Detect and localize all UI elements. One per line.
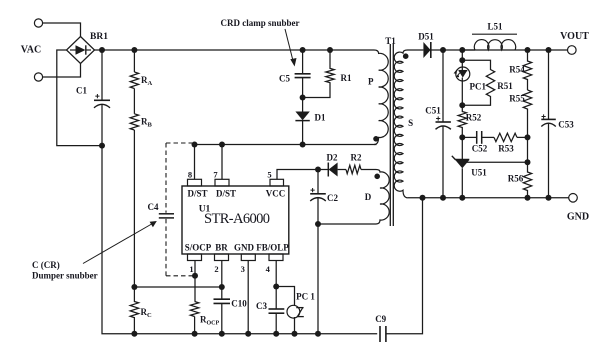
svg-text:D1: D1: [315, 113, 326, 123]
svg-text:GND: GND: [234, 242, 255, 252]
node C51 top: [440, 47, 446, 53]
svg-text:3: 3: [241, 264, 245, 274]
svg-text:R54: R54: [509, 65, 525, 75]
node C52 left junction: [459, 134, 465, 140]
node primary polarity dot: [373, 136, 379, 142]
node R53 right junction: [525, 134, 531, 140]
capacitor C4 (dumper snubber): [159, 214, 174, 218]
node R51 bottom junction: [459, 102, 465, 108]
wire bridge left vertex to left rail down to C1 node: [57, 50, 102, 146]
node C1 top on rail: [99, 47, 105, 53]
node C2 bottom junction: [315, 221, 321, 227]
terminal VAC- (bottom input): [34, 73, 42, 81]
wire ROCP to ground rail: [194, 317, 196, 334]
transformer T1 secondary winding S: [394, 50, 408, 198]
node R1 top on rail: [327, 47, 333, 53]
U1 pin 2 stub: [215, 254, 229, 261]
svg-text:C2: C2: [327, 193, 338, 203]
node pin3 bottom: [245, 331, 251, 337]
svg-text:C10: C10: [231, 299, 247, 309]
wire rail to C5: [302, 50, 304, 74]
node U51 bottom: [459, 195, 465, 201]
svg-text:R55: R55: [509, 94, 525, 104]
wire top positive rail (bridge to transformer primary): [95, 49, 375, 51]
dashed snubber box left edge upper: [165, 143, 167, 213]
node C2 branch bottom: [315, 331, 321, 337]
svg-text:1: 1: [189, 264, 193, 274]
wire RA to RB: [133, 89, 135, 114]
transistor PC1 phototransistor symbol: [296, 308, 304, 317]
U1 pin 4 stub: [269, 254, 283, 261]
node C51 bottom: [440, 195, 446, 201]
svg-text:PC 1: PC 1: [296, 292, 315, 302]
wire VAC+ to bridge top: [43, 23, 81, 38]
wire R53 to divider: [517, 136, 528, 138]
U1 pin 3 stub: [241, 254, 255, 261]
capacitor C10: [214, 299, 231, 303]
svg-text:4: 4: [266, 264, 271, 274]
svg-text:R51: R51: [497, 81, 513, 91]
wire rail to PC1 LED node: [461, 50, 463, 60]
node PC1/L51 top junction: [459, 47, 465, 53]
wire D/ST node (pins 7,8 to D1 and primary bottom): [195, 144, 377, 146]
svg-text:C1: C1: [76, 86, 87, 96]
resistor ROCP: [190, 302, 198, 317]
shunt regulator U51: [452, 156, 470, 198]
node pin1 dashed box corner: [192, 273, 198, 279]
svg-text:D/ST: D/ST: [216, 189, 236, 199]
node C3 bottom: [273, 331, 279, 337]
wire C2 node to ground rail: [317, 224, 319, 334]
svg-text:R56: R56: [508, 174, 524, 184]
wire L51 left lead: [462, 49, 475, 51]
wire pin4 to phototransistor: [276, 287, 294, 306]
wire R2 to D winding: [361, 169, 376, 171]
resistor RA: [130, 72, 138, 89]
svg-text:C3: C3: [256, 301, 267, 311]
wire C3 to ground rail: [275, 313, 277, 334]
capacitor C9 (Y-cap in ground return): [380, 326, 386, 342]
capacitor C51 (polarized): [436, 50, 451, 198]
wire left rail down to bottom rail: [102, 146, 377, 334]
wire C5 to snubber bottom node: [302, 78, 304, 98]
svg-text:CRD clamp snubber: CRD clamp snubber: [220, 18, 299, 28]
svg-text:Dumper snubber: Dumper snubber: [32, 271, 98, 281]
svg-text:D/ST: D/ST: [187, 189, 207, 199]
wire U51 ref to divider midpoint: [464, 161, 528, 163]
node divider midpoint: [525, 159, 531, 165]
svg-text:D51: D51: [418, 32, 434, 42]
inductor L51 bar: [472, 33, 517, 35]
node RA top on rail: [131, 47, 137, 53]
svg-text:R2: R2: [351, 153, 362, 163]
diode PC1 LED symbol: [459, 60, 468, 105]
svg-text:S/OCP: S/OCP: [185, 242, 212, 252]
node C1 bottom junction: [99, 143, 105, 149]
svg-text:C52: C52: [472, 144, 488, 154]
terminal VAC+ (top input): [34, 19, 42, 27]
svg-text:5: 5: [267, 170, 271, 180]
wire pin7 lead: [221, 145, 223, 180]
resistor R56: [523, 137, 531, 197]
wire C9 to secondary ground: [386, 198, 423, 334]
wire BR node to pin2 branch: [134, 286, 221, 288]
node PC1 LED top junction: [459, 57, 465, 63]
node BR divider junction: [131, 284, 137, 290]
dashed snubber box top edge: [166, 142, 192, 144]
wire S winding to D51: [408, 49, 424, 51]
svg-text:L51: L51: [487, 22, 503, 32]
node R56 bottom: [525, 195, 531, 201]
wire C2 to D winding bottom node: [317, 198, 319, 224]
svg-text:FB/OLP: FB/OLP: [256, 242, 289, 252]
resistor R51: [462, 60, 494, 105]
dashed snubber box bottom edge: [166, 275, 193, 277]
node C5 top on rail: [300, 47, 306, 53]
node pin2 BR junction: [219, 284, 225, 290]
resistor RC: [130, 287, 138, 334]
transformer T1 core: [390, 44, 393, 226]
node pin8 junction: [192, 142, 198, 148]
diode PC1 LED emission arrows: [455, 69, 460, 77]
svg-text:C9: C9: [375, 314, 386, 324]
terminal GND: [569, 194, 578, 203]
svg-text:BR1: BR1: [90, 32, 108, 42]
capacitor C2 (polarized): [310, 188, 326, 201]
capacitor C1 (polarized bulk cap): [94, 94, 110, 108]
wire rail to RA: [133, 50, 135, 72]
resistor R52: [458, 105, 466, 137]
wire pin5 VCC lead: [277, 170, 318, 180]
svg-text:C (CR): C (CR): [32, 260, 60, 270]
node pin4 FB junction: [273, 284, 279, 290]
wire VOUT rail: [431, 49, 568, 51]
dashed snubber box left edge lower: [165, 219, 167, 276]
svg-text:BR: BR: [215, 242, 228, 252]
svg-text:R53: R53: [498, 144, 514, 154]
wire to C52: [462, 136, 476, 138]
op-amp U1 STR-A6000 body: [182, 186, 289, 254]
svg-text:C5: C5: [279, 74, 290, 84]
diode PC1 LED circle: [456, 67, 470, 81]
wire secondary ground rail: [408, 197, 569, 199]
capacitor C5: [295, 74, 311, 78]
wire C52 to R53: [482, 136, 494, 138]
node C10 bottom: [219, 331, 225, 337]
U1 pin 7 stub: [215, 179, 229, 186]
U1 pin 1 stub: [188, 254, 202, 261]
capacitor C53 (polarized): [541, 50, 556, 198]
wire pin1 lead: [194, 261, 196, 302]
annotation arrow to C5: [285, 29, 297, 67]
annotation arrow to C4: [83, 221, 157, 264]
node PC1 bottom: [292, 331, 298, 337]
resistor RB: [130, 114, 138, 130]
svg-text:VAC: VAC: [21, 45, 41, 56]
wire VAC- to bridge bottom: [43, 63, 81, 78]
svg-text:P: P: [368, 77, 374, 87]
node R54 top junction: [525, 47, 531, 53]
wire pin2 lead: [221, 261, 223, 300]
diode D2: [318, 163, 346, 177]
bridge rectifier BR1 diamond: [67, 37, 95, 64]
svg-text:VCC: VCC: [266, 189, 286, 199]
node secondary polarity dot: [403, 53, 409, 59]
svg-text:C4: C4: [148, 202, 159, 212]
svg-text:C51: C51: [425, 106, 441, 116]
U1 pin 8 stub: [188, 179, 202, 186]
svg-text:C53: C53: [558, 119, 574, 129]
wire pin8 lead: [194, 145, 196, 180]
svg-text:GND: GND: [567, 212, 589, 223]
resistor R55: [523, 90, 531, 137]
wire pin4 lead: [275, 261, 277, 310]
svg-text:R1: R1: [341, 73, 352, 83]
wire R52 node to U51: [461, 137, 463, 159]
svg-text:U51: U51: [471, 168, 487, 178]
node ROCP bottom: [192, 331, 198, 337]
node C53 bottom: [546, 195, 552, 201]
resistor R53: [494, 133, 517, 141]
wire VCC node to C2: [317, 170, 319, 194]
svg-text:STR-A6000: STR-A6000: [204, 211, 270, 227]
transformer T1 auxiliary winding D: [376, 170, 389, 225]
svg-text:PC1: PC1: [470, 81, 487, 91]
capacitor C3: [269, 309, 285, 313]
svg-text:R52: R52: [466, 113, 482, 123]
node C9 riser junction: [420, 195, 426, 201]
node auxiliary polarity dot: [374, 174, 380, 180]
svg-text:2: 2: [214, 264, 218, 274]
node VCC junction: [315, 167, 321, 173]
wire phototransistor to ground rail: [294, 317, 296, 334]
wire rail to C1: [101, 50, 103, 100]
wire RB down to BR node: [133, 130, 135, 287]
wire pin3 GND lead: [247, 261, 249, 334]
transformer T1 primary winding P: [374, 50, 388, 145]
node D1 bottom junction: [300, 142, 306, 148]
U1 pin 5 stub: [270, 179, 284, 186]
svg-text:S: S: [408, 118, 413, 128]
wire D winding bottom: [318, 223, 376, 225]
svg-text:D2: D2: [327, 153, 338, 163]
diode D1: [295, 98, 309, 145]
node snubber bottom junction: [300, 95, 306, 101]
inductor L51: [474, 40, 515, 50]
resistor R54: [523, 50, 531, 90]
svg-text:D: D: [365, 192, 372, 202]
transistor PC1 phototransistor circle: [287, 305, 300, 318]
wire C10 to ground rail: [221, 303, 223, 333]
capacitor C52: [477, 131, 482, 144]
node C53 top junction: [546, 47, 552, 53]
svg-text:8: 8: [188, 170, 192, 180]
node pin7 junction: [219, 142, 225, 148]
resistor R2: [346, 165, 361, 173]
svg-text:VOUT: VOUT: [560, 31, 589, 42]
node RC bottom on ground rail: [131, 331, 137, 337]
diode D51: [423, 42, 430, 58]
resistor R1: [303, 50, 335, 98]
wire C1 to bottom node: [101, 105, 103, 146]
terminal VOUT: [568, 46, 577, 55]
bridge BR1 internal diode: [70, 45, 91, 54]
